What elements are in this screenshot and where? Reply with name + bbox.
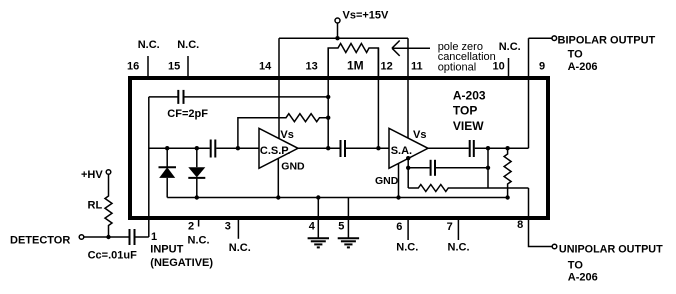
- svg-text:1M: 1M: [347, 59, 364, 73]
- diode D2 protection (cathode down): [188, 148, 205, 197]
- svg-text:TO: TO: [568, 49, 584, 61]
- wire pin 15 stub: [187, 56, 189, 76]
- node pin 12 junction: [376, 146, 380, 150]
- node S.A. feedback tap: [406, 156, 410, 160]
- svg-text:N.C.: N.C.: [138, 39, 160, 51]
- svg-text:RL: RL: [88, 200, 103, 212]
- capacitor CF=2pF feedback: [149, 90, 328, 104]
- svg-text:N.C.: N.C.: [177, 39, 199, 51]
- svg-text:BIPOLAR OUTPUT: BIPOLAR OUTPUT: [558, 35, 656, 47]
- svg-text:GND: GND: [375, 175, 399, 187]
- svg-text:13: 13: [306, 61, 318, 73]
- svg-text:optional: optional: [438, 62, 477, 74]
- node RL bottom junction: [106, 235, 110, 239]
- arrow pole-zero callout: [392, 41, 430, 56]
- node pin 4 rail junction: [316, 195, 320, 199]
- label UNIPOLAR OUTPUT TO A-206: [559, 244, 663, 284]
- wire pin 11 vertical (Vs to S.A.): [407, 38, 409, 138]
- diode D1 protection (cathode up): [159, 148, 177, 197]
- node output row junction 1: [486, 146, 490, 150]
- wire pin 12 internal vertical: [377, 48, 379, 148]
- svg-text:12: 12: [381, 61, 393, 73]
- svg-text:1: 1: [151, 231, 157, 243]
- wire pin 7 stub: [457, 218, 459, 240]
- svg-text:C.S.P.: C.S.P.: [260, 145, 290, 157]
- terminal Vs=+15V supply: [335, 18, 340, 23]
- svg-text:8: 8: [517, 219, 523, 231]
- node Vs junction: [335, 36, 339, 40]
- svg-text:9: 9: [539, 61, 545, 73]
- wire C.S.P. gnd stub: [277, 158, 279, 197]
- svg-text:CF=2pF: CF=2pF: [167, 108, 208, 120]
- svg-text:Cc=.01uF: Cc=.01uF: [88, 250, 137, 262]
- resistor R4 load (vertical): [504, 148, 511, 197]
- svg-text:5: 5: [338, 221, 344, 233]
- node S.A. gnd rail junction: [396, 195, 400, 199]
- node load resistor bottom: [505, 195, 509, 199]
- terminal unipolar output: [552, 244, 557, 249]
- node feedback cap left junction: [406, 166, 410, 170]
- node feedback cap right junction: [486, 166, 490, 170]
- svg-text:(NEGATIVE): (NEGATIVE): [150, 257, 213, 269]
- wire input row: [149, 147, 210, 149]
- wire pin 2 stub: [198, 218, 200, 227]
- wire pin 3 stub: [237, 218, 239, 239]
- svg-text:INPUT: INPUT: [150, 244, 183, 256]
- capacitor Cc=.01uF coupling: [130, 229, 149, 245]
- svg-text:16: 16: [127, 61, 139, 73]
- svg-text:2: 2: [188, 221, 194, 233]
- svg-text:3: 3: [225, 221, 231, 233]
- terminal bipolar output: [552, 36, 557, 41]
- label INPUT (NEGATIVE): [150, 244, 213, 270]
- wire pin 9 vertical (S.A. output to bipolar): [528, 38, 530, 148]
- note pole zero cancellation optional: [438, 41, 496, 74]
- node pin 13 output junction: [326, 146, 330, 150]
- svg-text:10: 10: [493, 61, 505, 73]
- node feedback resistor right junction: [326, 116, 330, 120]
- wire output node vertical: [487, 148, 489, 188]
- wire pin 10 stub: [508, 58, 510, 76]
- svg-text:N.C.: N.C.: [188, 235, 210, 247]
- wire internal ground rail: [167, 197, 507, 199]
- wire pin 13 internal vertical: [327, 48, 329, 148]
- svg-text:N.C.: N.C.: [499, 41, 521, 53]
- wire pin 16 stub: [147, 56, 149, 76]
- svg-text:A-206: A-206: [568, 61, 598, 73]
- capacitor C2 input coupling internal: [211, 140, 259, 158]
- wire pin 1 vertical: [148, 97, 150, 237]
- wire top rail pin14 to pin11: [279, 37, 408, 39]
- terminal detector input: [79, 235, 84, 240]
- svg-text:GND: GND: [281, 161, 305, 173]
- resistor R3 S.A. feedback: [408, 185, 528, 192]
- svg-text:UNIPOLAR OUTPUT: UNIPOLAR OUTPUT: [559, 244, 663, 256]
- node CF right junction: [326, 95, 330, 99]
- resistor R2 C.S.P. feedback: [238, 114, 328, 149]
- op-amp U1b S.A.: [375, 128, 428, 187]
- label A-203 TOP VIEW: [453, 88, 486, 133]
- resistor RL bias: [105, 174, 112, 237]
- node right diode top: [195, 146, 199, 150]
- capacitor C3 interstage: [341, 140, 390, 157]
- svg-text:11: 11: [411, 61, 423, 73]
- node output row junction 2: [505, 146, 509, 150]
- wire S.A. output row: [428, 147, 469, 149]
- wire Vs stem: [337, 23, 339, 38]
- svg-text:N.C.: N.C.: [396, 241, 418, 253]
- svg-text:6: 6: [396, 221, 402, 233]
- svg-text:4: 4: [309, 221, 316, 233]
- svg-text:TOP: TOP: [453, 104, 477, 118]
- svg-text:+HV: +HV: [81, 169, 103, 181]
- wire detector row: [84, 236, 129, 238]
- wire S.A. gnd stub: [398, 163, 400, 197]
- wire pin 4 ground: [317, 198, 319, 239]
- wire bipolar output horizontal: [529, 37, 553, 39]
- svg-text:A-206: A-206: [568, 272, 598, 284]
- svg-text:S.A.: S.A.: [391, 145, 412, 157]
- svg-text:DETECTOR: DETECTOR: [10, 235, 70, 247]
- ground pin 5: [338, 238, 359, 247]
- svg-text:N.C.: N.C.: [448, 241, 470, 253]
- svg-text:14: 14: [259, 61, 272, 73]
- svg-text:Vs=+15V: Vs=+15V: [343, 10, 390, 22]
- wire pin 5 ground: [347, 198, 349, 239]
- wire feedback tap vertical: [407, 158, 409, 188]
- IC U1 A-203 package outline: [130, 78, 548, 218]
- node C.S.P. gnd rail junction: [276, 195, 280, 199]
- svg-text:N.C.: N.C.: [229, 242, 251, 254]
- ground pin 4: [308, 238, 329, 247]
- wire pin 8 unipolar output: [529, 188, 553, 247]
- capacitor C5 S.A. output: [470, 140, 529, 157]
- node feedback resistor left junction: [236, 146, 240, 150]
- svg-text:7: 7: [447, 221, 453, 233]
- svg-text:15: 15: [168, 61, 180, 73]
- terminal +HV supply: [106, 170, 111, 175]
- resistor R1 1M pole-zero (pins 13-12): [328, 44, 378, 77]
- node left diode top: [165, 146, 169, 150]
- label BIPOLAR OUTPUT TO A-206: [558, 35, 656, 74]
- wire pin 6 stub: [407, 218, 409, 240]
- svg-text:VIEW: VIEW: [453, 119, 484, 133]
- op-amp U1a C.S.P.: [259, 128, 305, 172]
- svg-text:Vs: Vs: [413, 129, 426, 141]
- node diode D2 bottom: [195, 195, 199, 199]
- svg-text:TO: TO: [568, 260, 584, 272]
- svg-text:A-203: A-203: [453, 88, 486, 102]
- wire pin 14 vertical (Vs to C.S.P.): [278, 38, 280, 138]
- svg-text:Vs: Vs: [280, 129, 293, 141]
- capacitor C4 S.A. feedback: [408, 160, 488, 176]
- wire C.S.P. output row: [298, 147, 340, 149]
